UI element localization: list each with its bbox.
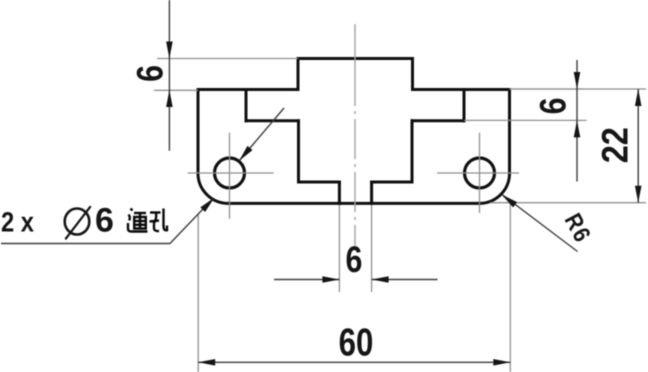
block top [298,57,413,60]
inner step right vertical [463,90,466,121]
dim line right 6 vertical [576,60,578,182]
arrow right6 up [574,120,581,137]
extension lines (thin gray) [154,59,646,372]
svg-text:22: 22 [595,127,636,163]
arrow leaderB down-left [239,146,253,161]
callout text 2 x [1,207,34,238]
arrow 22 top [635,89,642,106]
ext left dim6 top [157,58,298,60]
part outline: stepped bracket, thick lines [198,59,510,204]
plate left edge [197,90,200,174]
svg-text:6: 6 [129,65,170,82]
svg-text:6: 6 [95,202,114,240]
corner arc bottom-left R6 [198,173,229,203]
dim line left 6 vertical [168,0,170,151]
svg-text:2 x: 2 x [1,207,34,238]
center column left [297,121,300,182]
ext 60 right [509,203,511,372]
dim line tab 6 left tail [274,279,339,281]
plate top left [198,88,298,91]
leader 2xD6 diagonal [170,199,213,244]
ext right dim6 top (from plate corner) [510,88,584,90]
ext left dim6 bottom [154,89,198,91]
centerline vertical dash-dot [354,24,356,246]
dimension texts [129,65,635,365]
column bottom right segment [372,181,412,184]
leader 2xD6 underline [1,243,170,245]
arrowheads (filled) [166,42,641,366]
ext 22 bottom [490,202,646,204]
svg-text:60: 60 [339,322,374,365]
arrow leaderA up-right [200,198,214,213]
ext tab dim6 left [338,205,340,292]
svg-text:6: 6 [533,98,574,115]
plate bottom edge [229,202,480,205]
crosshair right hole [437,133,519,213]
ext right dim6 bottom (from step) [464,119,587,121]
crosshair left hole [188,133,274,219]
plate top right [413,88,510,91]
ext 60 left [197,214,199,372]
inner step left vertical [245,90,248,121]
CJK 通 glyph (drawn) [128,209,148,232]
dim line 22 vertical [637,89,639,203]
inner step left horizontal [246,119,299,122]
dim line tab 6 right tail [372,279,438,281]
block left edge [297,59,300,90]
leader R6 [502,195,578,252]
hole right [465,158,495,188]
dim line 60 [198,361,510,363]
hole left [215,158,245,188]
block right edge [411,59,414,90]
arrow left6 up at y89.5 [166,90,173,107]
arrow right6 down [574,72,581,89]
arrow left6 down at y58.5 [166,42,173,59]
tab right edge [370,182,373,203]
arrow 22 bottom [635,186,642,203]
plate right edge [508,90,511,174]
arrow 60 left [198,359,215,366]
arrow R6 up-left [502,195,518,208]
ext tab dim6 right [371,205,373,292]
CJK 孔 glyph (drawn) [150,209,168,232]
ext 22 top [510,88,647,90]
arrow tab6 right-pointing [322,276,339,283]
tab left edge [338,182,341,203]
arrow 60 right [493,359,510,366]
inner step right horizontal [412,119,464,122]
column bottom left segment [299,181,340,184]
corner arc bottom-right R6 [480,173,510,203]
center column right [411,121,414,182]
arrow tab6 left-pointing [372,276,389,283]
svg-text:6: 6 [345,239,362,280]
leader upper diag to hole [239,108,284,161]
callout diameter symbol [65,206,91,239]
